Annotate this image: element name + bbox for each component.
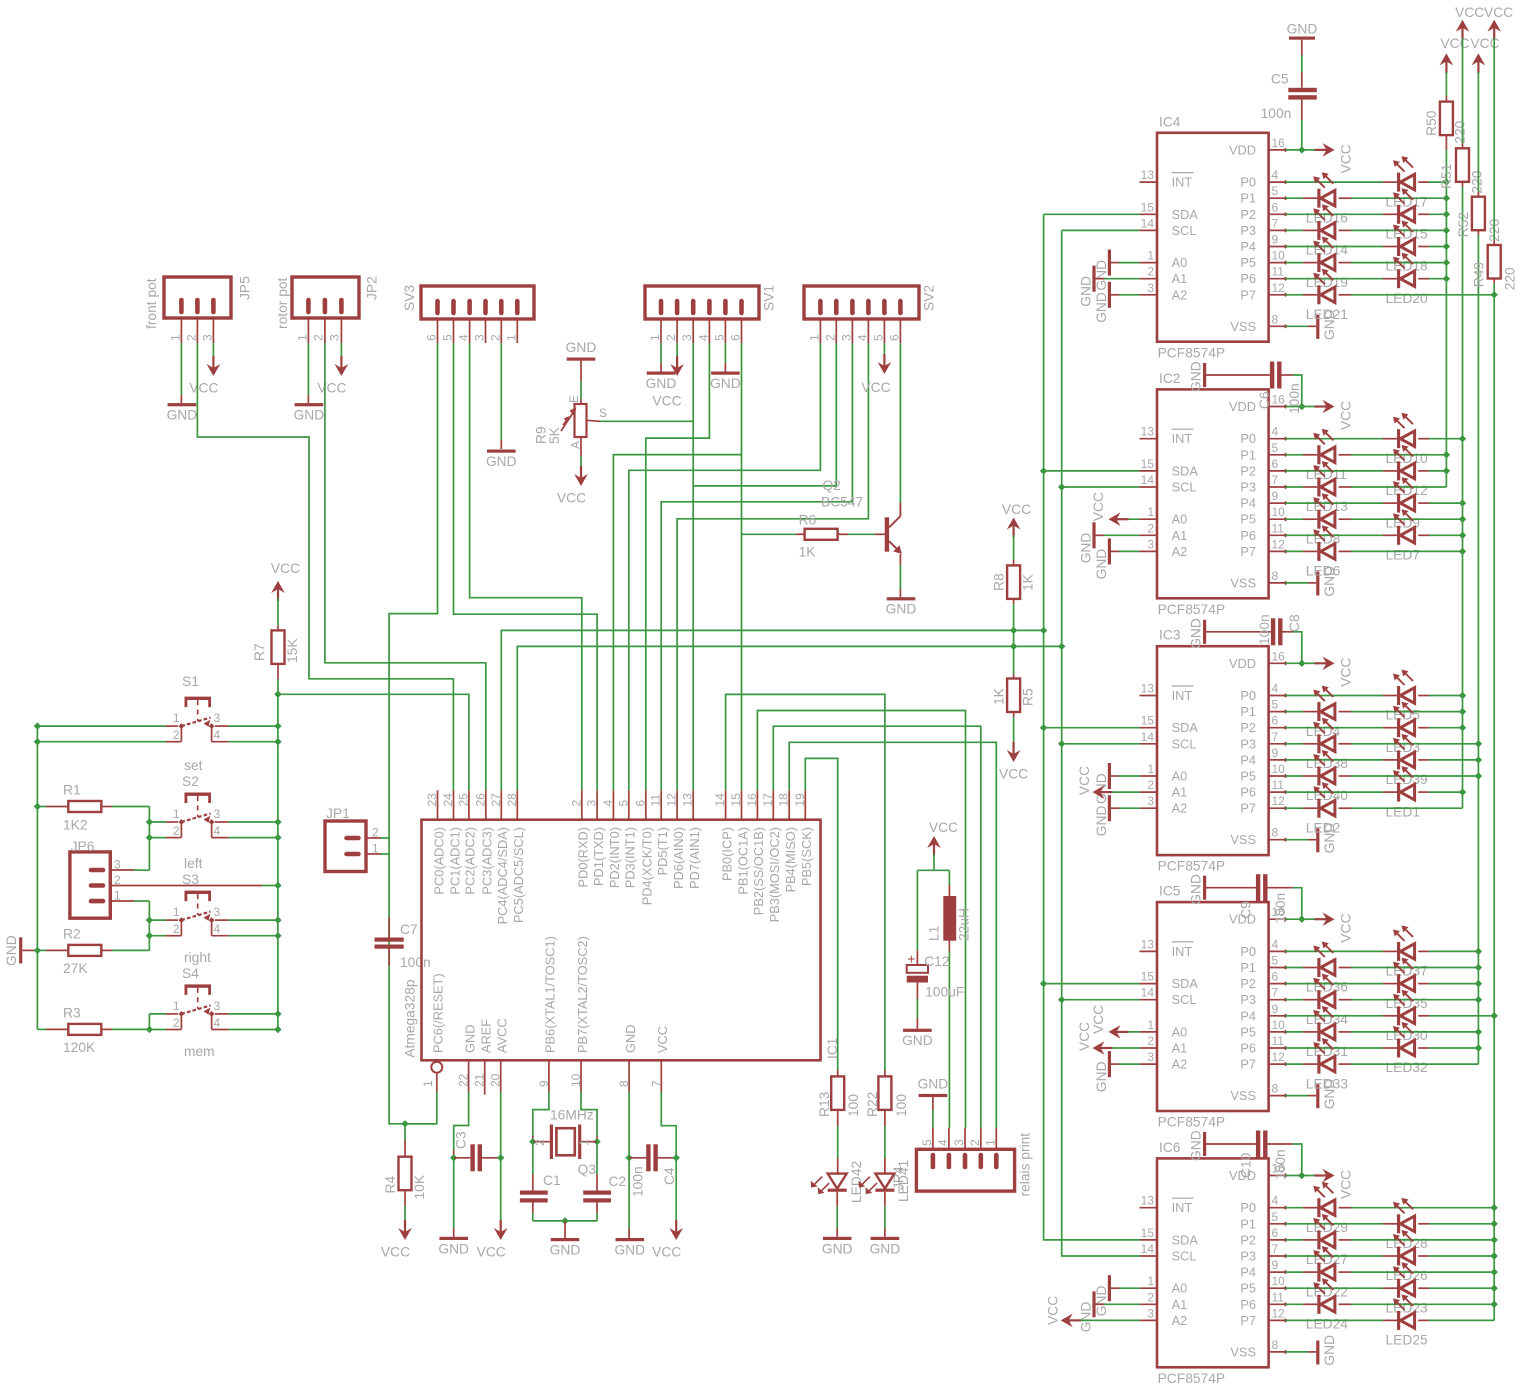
svg-text:A1: A1: [1172, 1297, 1188, 1312]
svg-text:3: 3: [214, 807, 221, 821]
svg-text:5: 5: [1272, 1210, 1279, 1224]
svg-text:PD4(XCK/T0): PD4(XCK/T0): [640, 827, 655, 905]
wire S3 row pins 2-4: [149, 935, 166, 937]
svg-text:LED24: LED24: [1306, 1317, 1349, 1332]
wire IC2 A pin to ground: [1104, 534, 1140, 536]
svg-text:P4: P4: [1240, 1008, 1256, 1023]
power VCC IC2 A pin: [1121, 518, 1140, 520]
svg-text:LED12: LED12: [1386, 483, 1428, 498]
power VCC IC3 A pin: [1106, 791, 1140, 793]
svg-text:VCC: VCC: [1091, 1005, 1106, 1034]
svg-text:VSS: VSS: [1230, 575, 1256, 590]
wire IC4 P4 row: [1286, 246, 1304, 248]
svg-text:C12: C12: [924, 954, 949, 969]
node IC6 P2 to R49 bus: [1491, 1236, 1498, 1243]
svg-text:6: 6: [1272, 1226, 1279, 1240]
transistor Q2 BC547: [885, 517, 889, 551]
svg-text:16: 16: [1272, 393, 1286, 407]
wire IC5 SCL branch: [1062, 999, 1140, 1001]
svg-text:A2: A2: [1172, 544, 1188, 559]
ground IC4 A pin: [1092, 266, 1095, 292]
ground SV1.1: [647, 372, 676, 375]
wire IC2 A pin to ground: [1119, 550, 1140, 552]
svg-text:Q2: Q2: [823, 478, 841, 493]
wire SCL from IC1 pin28: [517, 646, 1061, 790]
svg-text:P7: P7: [1240, 544, 1256, 559]
svg-text:VSS: VSS: [1230, 319, 1256, 334]
svg-text:R5: R5: [1021, 688, 1036, 706]
LED LED19: [1317, 253, 1320, 272]
wire IC1 pin22 to C3/ground: [454, 1092, 469, 1150]
svg-text:3: 3: [1147, 281, 1154, 295]
wire IC6 P1 row: [1286, 1223, 1304, 1225]
wire SV3.2 to ground: [500, 343, 502, 440]
svg-text:24: 24: [441, 793, 455, 807]
svg-text:S4: S4: [182, 966, 199, 981]
wire SV1.1 to ground: [660, 343, 662, 363]
ground IC1 pin8: [616, 1238, 645, 1241]
svg-text:3: 3: [585, 800, 599, 807]
ground JP2.1: [295, 403, 324, 406]
wire IC1 pin8 to ground: [628, 1092, 630, 1158]
svg-text:5: 5: [1272, 184, 1279, 198]
power VCC IC6 A pin: [1073, 1319, 1140, 1321]
ground IC3 VSS: [1286, 839, 1309, 841]
ground IC5 A pin: [1108, 1051, 1111, 1077]
svg-text:15: 15: [1141, 457, 1155, 471]
svg-text:27: 27: [489, 793, 503, 807]
svg-text:5: 5: [1272, 954, 1279, 968]
svg-text:A1: A1: [1172, 271, 1188, 286]
svg-text:3: 3: [1147, 1050, 1154, 1064]
LED LED38: [1317, 734, 1320, 753]
svg-text:LED7: LED7: [1386, 548, 1421, 563]
svg-text:1: 1: [577, 1139, 591, 1146]
svg-text:1: 1: [173, 905, 180, 919]
wire C8 to VDD junction: [1283, 631, 1294, 633]
svg-text:set: set: [184, 758, 203, 773]
svg-text:15K: 15K: [285, 638, 300, 663]
svg-text:PC2(ADC2): PC2(ADC2): [463, 827, 478, 895]
svg-text:GND: GND: [918, 1076, 949, 1091]
svg-text:1: 1: [296, 334, 310, 341]
svg-text:LED25: LED25: [1386, 1333, 1429, 1348]
svg-text:left: left: [184, 856, 203, 871]
wire S3 row pins 1-3: [149, 919, 166, 921]
wire R52 bus: [1477, 235, 1479, 1064]
svg-text:1: 1: [807, 334, 821, 341]
node IC6 P1 to R49 bus: [1491, 1220, 1498, 1227]
svg-text:10: 10: [1272, 505, 1286, 519]
svg-text:3: 3: [1147, 537, 1154, 551]
svg-text:100n: 100n: [1273, 893, 1288, 924]
svg-text:1: 1: [1147, 762, 1154, 776]
wire IC4 SCL branch: [1062, 229, 1140, 231]
IC3 right pin stubs: [1269, 662, 1286, 664]
LED LED18: [1397, 237, 1400, 256]
ground C8: [1206, 631, 1271, 633]
wire JP5.2 net (front pot wiper to IC1 pin24): [197, 343, 453, 790]
node IC4 P0 to R50 bus: [1443, 178, 1450, 185]
svg-text:20: 20: [489, 1073, 503, 1087]
svg-text:13: 13: [1141, 425, 1155, 439]
svg-text:12: 12: [665, 793, 679, 807]
potentiometer R9: [567, 358, 596, 361]
svg-text:C8: C8: [1287, 614, 1302, 632]
svg-text:2: 2: [173, 922, 180, 936]
svg-text:GND: GND: [1094, 1061, 1109, 1092]
svg-text:P5: P5: [1240, 1024, 1256, 1039]
switch S4 (right): [185, 984, 212, 987]
svg-text:VCC: VCC: [1002, 502, 1031, 517]
svg-text:P7: P7: [1240, 801, 1256, 816]
svg-text:8: 8: [617, 1080, 631, 1087]
svg-text:11: 11: [1272, 265, 1285, 279]
svg-text:4: 4: [214, 824, 221, 838]
svg-text:4: 4: [1272, 1194, 1279, 1208]
LED LED29: [1317, 1198, 1320, 1217]
wire IC5 P0 row: [1286, 950, 1304, 952]
wire R3 leads: [37, 1028, 46, 1030]
wire IC2 P5 row: [1286, 518, 1304, 520]
svg-text:1: 1: [648, 334, 662, 341]
LED LED40: [1317, 767, 1320, 786]
LED LED24: [1317, 1295, 1320, 1314]
ground IC3 A pin: [1108, 763, 1111, 789]
ground C10: [1206, 1143, 1256, 1145]
svg-text:VCC: VCC: [1077, 766, 1092, 795]
svg-text:1: 1: [173, 807, 180, 821]
node S4 right junctions: [274, 1010, 281, 1017]
wire IC5 A pin to ground: [1119, 1063, 1140, 1065]
svg-text:JP2: JP2: [365, 276, 380, 300]
svg-text:9: 9: [537, 1080, 551, 1087]
wire IC3 P2 row: [1286, 727, 1304, 729]
svg-text:SV2: SV2: [922, 285, 937, 311]
IC2 left pin stubs: [1140, 438, 1158, 440]
svg-text:16: 16: [745, 793, 759, 807]
svg-text:P5: P5: [1240, 1281, 1256, 1296]
ground Q2 emitter: [887, 597, 916, 600]
svg-text:1: 1: [1147, 1274, 1154, 1288]
svg-text:1K: 1K: [992, 687, 1007, 705]
wire SV1.3 / pot S / SV2.2 vertical net to IC1 pin13: [692, 343, 694, 790]
wire IC1 pin16 to relais pin3: [757, 711, 965, 1129]
power VCC below R5: [1007, 750, 1021, 762]
ground above relais pin5: [919, 1094, 948, 1097]
wire SV2.6 to Q2 collector: [899, 343, 901, 503]
svg-text:A0: A0: [1172, 255, 1188, 270]
svg-text:3: 3: [473, 334, 487, 341]
svg-text:Q3: Q3: [578, 1162, 597, 1177]
svg-text:LED10: LED10: [1386, 451, 1429, 466]
LED LED41: [875, 1174, 894, 1189]
svg-text:16: 16: [1272, 649, 1286, 663]
IC1 bottom pin stubs: [468, 1060, 470, 1092]
wire IC2 P6 row: [1286, 534, 1304, 536]
svg-text:12: 12: [1272, 1050, 1286, 1064]
svg-text:PD0(RXD): PD0(RXD): [576, 827, 591, 887]
ground JP5.1: [168, 403, 197, 406]
wire SV3.4 to IC1 pin2: [470, 343, 582, 790]
relais pin stubs: [932, 1128, 934, 1149]
svg-text:P6: P6: [1240, 271, 1256, 286]
wire S4 row pins 2-4: [149, 1029, 166, 1031]
ground crystal: [551, 1238, 580, 1241]
wire SV1.6 branch to IC1 pin4: [613, 455, 741, 791]
wire JP6.1/S3/R2 column: [148, 901, 150, 950]
inductor L1 22uH: [948, 885, 950, 896]
capacitor C9 100n: [1256, 874, 1260, 901]
svg-text:LED20: LED20: [1386, 291, 1429, 306]
svg-text:P0: P0: [1240, 1200, 1256, 1215]
wire IC4 A pin to ground: [1104, 278, 1140, 280]
svg-text:P2: P2: [1240, 207, 1256, 222]
svg-text:VCC: VCC: [1455, 5, 1484, 20]
svg-text:PCF8574P: PCF8574P: [1158, 1115, 1226, 1130]
svg-text:LED2: LED2: [1306, 820, 1341, 835]
svg-text:VCC: VCC: [189, 381, 218, 396]
svg-text:C2: C2: [609, 1174, 627, 1189]
wire IC5 P6 row: [1286, 1047, 1304, 1049]
svg-text:6: 6: [1272, 714, 1279, 728]
svg-text:GND: GND: [167, 408, 198, 423]
LED LED35: [1397, 974, 1400, 993]
svg-text:A2: A2: [1172, 801, 1188, 816]
svg-text:A1: A1: [1172, 1041, 1188, 1056]
wire R6 to Q2 base: [838, 533, 848, 535]
svg-text:SCL: SCL: [1172, 736, 1197, 751]
svg-text:2: 2: [968, 1139, 982, 1146]
svg-text:P6: P6: [1240, 1041, 1256, 1056]
svg-text:LED13: LED13: [1306, 499, 1349, 514]
svg-text:VCC: VCC: [1440, 36, 1469, 51]
svg-text:INT: INT: [1172, 688, 1193, 703]
node IC3 P3 to R52 bus: [1475, 740, 1482, 747]
svg-text:11: 11: [1272, 521, 1285, 535]
svg-text:A2: A2: [1172, 1057, 1188, 1072]
node IC2 P6 to R51 bus: [1459, 532, 1466, 539]
svg-text:5: 5: [1272, 441, 1279, 455]
wire IC1 pin9 to crystal: [533, 1092, 549, 1136]
svg-text:LED26: LED26: [1386, 1268, 1429, 1283]
wire IC3 P7 row: [1286, 807, 1304, 809]
svg-text:PC1(ADC1): PC1(ADC1): [447, 827, 462, 895]
svg-text:11: 11: [1272, 1034, 1285, 1048]
node SCL bus at IC1 branch: [1058, 643, 1065, 650]
svg-text:P5: P5: [1240, 255, 1256, 270]
svg-text:13: 13: [1141, 937, 1155, 951]
svg-text:6: 6: [1272, 457, 1279, 471]
svg-text:GND: GND: [710, 376, 741, 391]
svg-text:28: 28: [505, 793, 519, 807]
IC IC2 PCF8574P: [1157, 389, 1269, 598]
wire S1 row pins 1-3: [37, 725, 166, 727]
svg-text:LED22: LED22: [1306, 1284, 1348, 1299]
svg-text:P1: P1: [1240, 191, 1256, 206]
svg-text:11: 11: [649, 794, 663, 807]
svg-text:14: 14: [713, 793, 727, 807]
svg-text:VDD: VDD: [1229, 399, 1256, 414]
svg-text:GND: GND: [1094, 1286, 1109, 1317]
svg-text:P4: P4: [1240, 239, 1256, 254]
node crystal pin1: [593, 1138, 600, 1145]
svg-text:1: 1: [504, 334, 518, 341]
wire R1/S2/JP6.3 column: [148, 807, 150, 871]
wire IC6 P7 row: [1286, 1319, 1304, 1321]
svg-text:LED28: LED28: [1386, 1236, 1429, 1251]
svg-text:LED11: LED11: [1306, 467, 1347, 482]
svg-text:GND: GND: [1079, 276, 1094, 307]
wire SCL bus vertical: [1062, 230, 1140, 1256]
svg-text:VCC: VCC: [557, 491, 586, 506]
svg-text:22: 22: [457, 1073, 471, 1087]
wire C6 to VDD junction: [1282, 374, 1294, 376]
svg-text:100n: 100n: [1257, 614, 1272, 645]
svg-text:9: 9: [1272, 1258, 1279, 1272]
wire R6 left lead: [742, 533, 797, 535]
svg-text:2: 2: [569, 800, 583, 807]
svg-text:GND: GND: [1079, 533, 1094, 564]
svg-text:3: 3: [680, 334, 694, 341]
svg-text:GND: GND: [550, 1243, 581, 1258]
svg-text:P0: P0: [1240, 944, 1256, 959]
svg-text:P4: P4: [1240, 1265, 1256, 1280]
svg-text:PB2(SS/OC1B): PB2(SS/OC1B): [751, 827, 766, 915]
svg-text:6: 6: [887, 334, 901, 341]
IC6 right pin stubs: [1269, 1175, 1286, 1177]
LED LED26: [1397, 1247, 1400, 1266]
svg-text:LED6: LED6: [1306, 564, 1341, 579]
svg-text:C10: C10: [1239, 1152, 1254, 1178]
wire IC6 P5 row: [1286, 1287, 1304, 1289]
svg-text:P1: P1: [1240, 447, 1256, 462]
wire IC2 SCL branch: [1062, 486, 1140, 488]
svg-text:right: right: [184, 950, 211, 965]
svg-text:INT: INT: [1172, 1200, 1193, 1215]
svg-text:R2: R2: [63, 927, 81, 942]
wire R50 bus: [1445, 150, 1447, 488]
LED LED5: [1397, 686, 1400, 705]
resistor R51 220: [1462, 38, 1464, 144]
svg-text:VCC: VCC: [1339, 658, 1354, 687]
svg-text:2: 2: [1147, 521, 1154, 535]
svg-text:VDD: VDD: [1229, 656, 1256, 671]
LED LED30: [1397, 1006, 1400, 1025]
svg-text:R4: R4: [383, 1176, 398, 1194]
svg-text:5: 5: [616, 800, 630, 807]
svg-text:1: 1: [421, 1080, 435, 1087]
svg-text:R3: R3: [63, 1006, 81, 1021]
wire IC5 P3 row: [1286, 999, 1304, 1001]
svg-text:3: 3: [328, 334, 342, 341]
svg-text:A0: A0: [1172, 1281, 1188, 1296]
resistor R2 27K: [68, 945, 101, 956]
svg-text:4: 4: [855, 334, 869, 341]
svg-text:SCL: SCL: [1172, 223, 1197, 238]
LED LED39: [1397, 750, 1400, 769]
svg-text:P6: P6: [1240, 785, 1256, 800]
svg-text:LED23: LED23: [1386, 1300, 1429, 1315]
svg-text:C1: C1: [543, 1173, 561, 1188]
node IC2 P5 to R51 bus: [1459, 516, 1466, 523]
switch S2 (set): [185, 793, 212, 796]
svg-text:GND: GND: [1094, 292, 1109, 323]
svg-text:1K: 1K: [1021, 573, 1036, 591]
svg-text:C3: C3: [454, 1131, 469, 1149]
wire IC4 P3 row: [1286, 229, 1304, 231]
svg-text:7: 7: [1272, 1242, 1279, 1256]
svg-text:LED39: LED39: [1386, 772, 1429, 787]
svg-text:A2: A2: [1172, 1313, 1188, 1328]
svg-text:4: 4: [936, 1139, 950, 1146]
wire JP5 pin leads: [180, 318, 182, 343]
node IC6 P4 to R49 bus: [1491, 1268, 1498, 1275]
power VCC below R4: [398, 1228, 412, 1240]
svg-text:2: 2: [664, 334, 678, 341]
wire VCC branch to C12 and L1: [917, 869, 949, 871]
svg-text:P4: P4: [1240, 752, 1256, 767]
wire JP6.1: [110, 900, 134, 902]
svg-text:220: 220: [1503, 267, 1518, 290]
wire SV2.2 branch: [693, 343, 836, 486]
svg-text:P2: P2: [1240, 1232, 1256, 1247]
wire IC2 P2 row: [1286, 470, 1304, 472]
IC1 pin1 reset circle: [431, 1062, 442, 1073]
svg-text:LED16: LED16: [1306, 210, 1349, 225]
LED LED22: [1317, 1263, 1320, 1282]
svg-text:15: 15: [1141, 970, 1155, 984]
node IC5 P2 to R52 bus: [1475, 980, 1482, 987]
svg-text:P5: P5: [1240, 512, 1256, 527]
svg-text:2: 2: [173, 728, 180, 742]
node IC3 P2 to R51 bus: [1459, 724, 1466, 731]
LED LED15: [1397, 205, 1400, 224]
svg-text:14: 14: [1141, 986, 1155, 1000]
svg-text:25: 25: [456, 793, 470, 807]
svg-text:14: 14: [1141, 473, 1155, 487]
svg-text:100n: 100n: [1261, 106, 1292, 121]
wire switch right column: [277, 694, 279, 1029]
node IC6 P0 to R49 bus: [1491, 1204, 1498, 1211]
LED LED34: [1317, 990, 1320, 1009]
node IC5 P1 to R52 bus: [1475, 964, 1482, 971]
capacitor C12 100uF: [916, 950, 918, 965]
svg-text:PD6(AIN0): PD6(AIN0): [671, 827, 686, 889]
ground C12: [903, 1029, 932, 1032]
svg-text:6: 6: [1272, 970, 1279, 984]
svg-text:VSS: VSS: [1230, 1344, 1256, 1359]
node C4 left: [625, 1154, 632, 1161]
svg-text:7: 7: [1272, 216, 1279, 230]
node IC6 P3 to R49 bus: [1491, 1252, 1498, 1259]
svg-text:PB7(XTAL2/TOSC2): PB7(XTAL2/TOSC2): [575, 936, 590, 1053]
power VCC JP2.3: [340, 343, 342, 356]
svg-text:2: 2: [185, 334, 199, 341]
ground IC2 A pin: [1092, 522, 1095, 548]
wire IC3 P6 row: [1286, 791, 1304, 793]
svg-text:VCC: VCC: [1339, 144, 1354, 173]
svg-text:GND: GND: [1094, 260, 1109, 291]
wire IC1 pin17 to relais pin2: [773, 726, 981, 1128]
svg-text:IC3: IC3: [1159, 628, 1181, 643]
svg-text:100: 100: [894, 1094, 909, 1117]
node R5 on SCL: [1010, 643, 1017, 650]
svg-text:P3: P3: [1240, 1249, 1256, 1264]
LED LED36: [1317, 958, 1320, 977]
wire IC3 SCL branch: [1062, 743, 1140, 745]
LED LED27: [1317, 1230, 1320, 1249]
